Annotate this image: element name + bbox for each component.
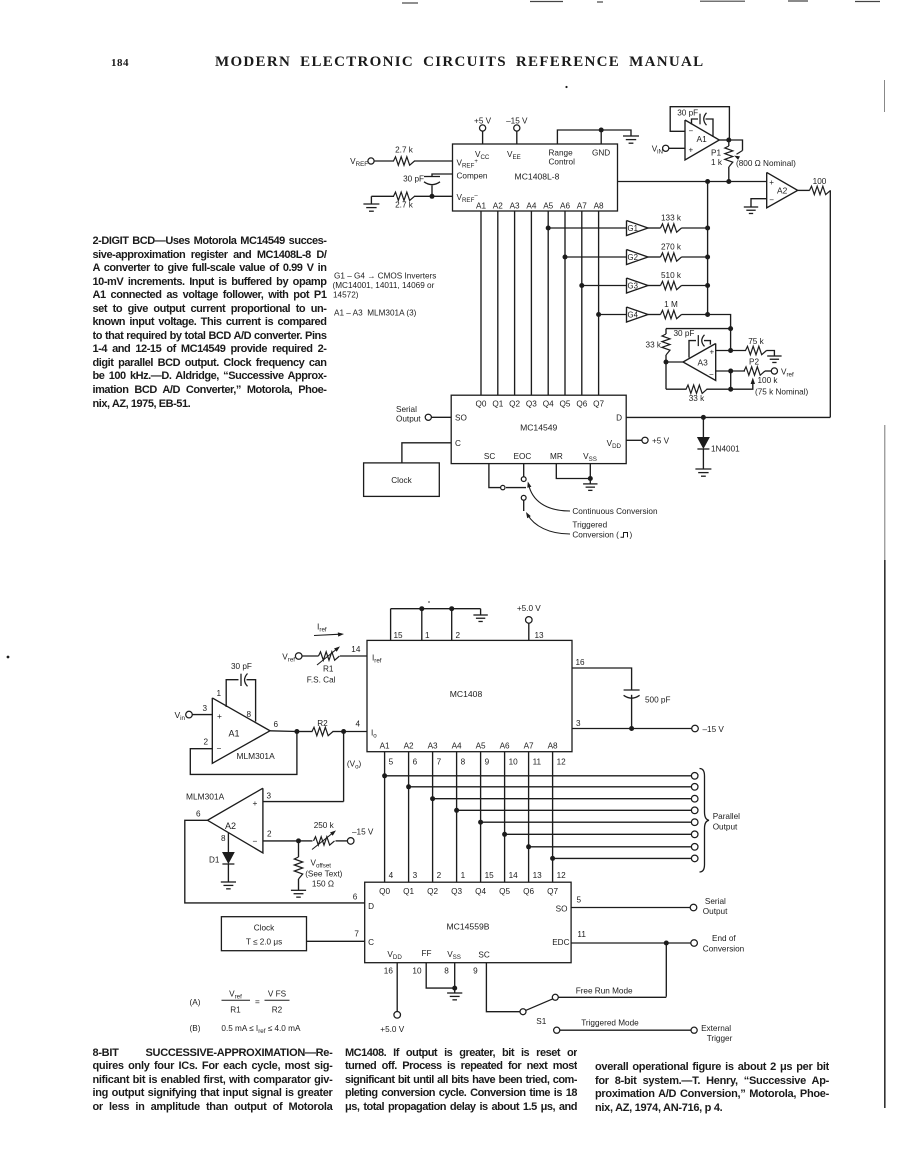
svg-text:+: + — [217, 711, 222, 721]
svg-text:4: 4 — [389, 871, 394, 880]
svg-text:8: 8 — [461, 758, 466, 767]
svg-text:GND: GND — [592, 149, 610, 158]
svg-text:3: 3 — [576, 719, 581, 728]
svg-text:30 pF: 30 pF — [403, 175, 424, 184]
svg-text:1: 1 — [461, 871, 466, 880]
svg-text:Conversion (: Conversion ( — [572, 531, 619, 540]
svg-text:Parallel: Parallel — [713, 812, 740, 821]
svg-text:A2: A2 — [777, 185, 788, 195]
svg-text:Range: Range — [549, 149, 574, 158]
svg-text:R1: R1 — [230, 1006, 241, 1015]
svg-text:1: 1 — [217, 689, 222, 698]
svg-text:5: 5 — [389, 758, 394, 767]
svg-text:−: − — [217, 744, 222, 754]
svg-text:Vin: Vin — [174, 710, 185, 722]
svg-text:Clock: Clock — [254, 924, 275, 933]
svg-text:2.7 k: 2.7 k — [395, 201, 414, 210]
svg-text:−: − — [253, 836, 258, 846]
svg-text:133 k: 133 k — [661, 214, 682, 223]
svg-text:75 k: 75 k — [748, 337, 764, 346]
svg-text:6: 6 — [274, 720, 279, 729]
svg-text:D1: D1 — [209, 856, 220, 865]
svg-text:+5.0 V: +5.0 V — [380, 1025, 404, 1034]
svg-text:G1: G1 — [628, 224, 638, 233]
svg-text:10: 10 — [509, 758, 519, 767]
svg-text:+5.0 V: +5.0 V — [517, 604, 541, 613]
svg-text:MLM301A: MLM301A — [237, 751, 276, 761]
svg-text:Q3: Q3 — [451, 887, 462, 896]
svg-text:30 pF: 30 pF — [674, 329, 695, 338]
svg-text:12: 12 — [557, 871, 567, 880]
svg-text:12: 12 — [557, 758, 567, 767]
svg-text:R2: R2 — [272, 1006, 283, 1015]
svg-text:Q3: Q3 — [526, 400, 537, 409]
svg-text:MC14559B: MC14559B — [447, 922, 490, 932]
svg-text:Q1: Q1 — [403, 887, 414, 896]
svg-text:15: 15 — [485, 871, 495, 880]
svg-text:16: 16 — [576, 658, 586, 667]
svg-text:F.S. Cal: F.S. Cal — [307, 676, 336, 685]
svg-text:Q4: Q4 — [543, 400, 554, 409]
svg-text:(See Text): (See Text) — [305, 870, 342, 879]
svg-text:G4: G4 — [628, 311, 639, 320]
svg-text:V FS: V FS — [268, 990, 287, 999]
svg-text:A4: A4 — [526, 202, 536, 211]
svg-text:Iref: Iref — [317, 622, 327, 634]
svg-text:A7: A7 — [524, 742, 534, 751]
svg-text:Trigger: Trigger — [707, 1034, 733, 1043]
svg-text:Triggered Mode: Triggered Mode — [581, 1019, 639, 1028]
svg-text:−: − — [709, 370, 714, 379]
svg-text:3: 3 — [203, 704, 208, 713]
svg-text:Q2: Q2 — [509, 400, 520, 409]
svg-text:30 pF: 30 pF — [677, 109, 698, 118]
svg-text:6: 6 — [196, 810, 201, 819]
svg-text:6: 6 — [413, 758, 418, 767]
svg-text:Continuous Conversion: Continuous Conversion — [572, 507, 658, 516]
svg-text:−: − — [769, 196, 774, 205]
svg-text:MC1408L-8: MC1408L-8 — [515, 172, 560, 182]
svg-text:External: External — [701, 1024, 731, 1033]
svg-text:A2: A2 — [225, 821, 236, 831]
svg-text:MC1408: MC1408 — [450, 689, 483, 699]
svg-text:SC: SC — [478, 951, 489, 960]
svg-text:1 k: 1 k — [711, 158, 723, 167]
svg-text:SO: SO — [455, 414, 467, 423]
svg-text:G3: G3 — [628, 282, 638, 291]
svg-text:MR: MR — [550, 452, 563, 461]
svg-text:Q5: Q5 — [560, 400, 571, 409]
svg-text:End of: End of — [712, 934, 736, 943]
svg-text:8: 8 — [247, 710, 252, 719]
svg-text:1N4001: 1N4001 — [711, 445, 740, 454]
svg-text:3: 3 — [413, 871, 418, 880]
svg-text:A7: A7 — [577, 202, 587, 211]
svg-text:Q0: Q0 — [476, 400, 487, 409]
svg-text:R2: R2 — [317, 719, 328, 728]
svg-text:0.5 mA ≤ Iref ≤ 4.0 mA: 0.5 mA ≤ Iref ≤ 4.0 mA — [221, 1024, 301, 1035]
svg-text:A3: A3 — [698, 358, 709, 368]
svg-text:+: + — [769, 178, 774, 187]
svg-text:33 k: 33 k — [689, 394, 705, 403]
svg-text:14572): 14572) — [333, 291, 359, 300]
svg-text:D: D — [368, 902, 374, 911]
svg-text:270 k: 270 k — [661, 243, 682, 252]
svg-text:A1: A1 — [380, 742, 390, 751]
svg-text:T ≤ 2.0 μs: T ≤ 2.0 μs — [246, 938, 282, 947]
svg-text:–15 V: –15 V — [703, 725, 725, 734]
svg-text:(75 k Nominal): (75 k Nominal) — [755, 388, 809, 397]
svg-text:–15 V: –15 V — [506, 117, 528, 126]
svg-text:A3: A3 — [510, 202, 520, 211]
svg-text:7: 7 — [437, 758, 442, 767]
svg-text:(MC14001, 14011, 14069 or: (MC14001, 14011, 14069 or — [333, 281, 435, 290]
svg-text:P1: P1 — [711, 149, 721, 158]
svg-text:1: 1 — [425, 631, 430, 640]
svg-text:16: 16 — [384, 967, 394, 976]
svg-text:10: 10 — [412, 967, 422, 976]
svg-text:Q5: Q5 — [499, 887, 510, 896]
svg-text:(800 Ω Nominal): (800 Ω Nominal) — [736, 159, 796, 168]
svg-text:SO: SO — [556, 905, 568, 914]
svg-text:14: 14 — [509, 871, 519, 880]
svg-text:Clock: Clock — [391, 476, 412, 485]
svg-text:(A): (A) — [190, 998, 201, 1007]
svg-text:5: 5 — [577, 896, 582, 905]
svg-text:EOC: EOC — [514, 452, 532, 461]
svg-text:9: 9 — [485, 758, 490, 767]
svg-text:(Vo): (Vo) — [347, 760, 362, 771]
svg-text:SC: SC — [484, 452, 495, 461]
svg-text:P2: P2 — [749, 358, 759, 367]
svg-text:VDD: VDD — [387, 950, 402, 961]
svg-text:−: − — [689, 127, 694, 136]
svg-text:2: 2 — [267, 830, 272, 839]
svg-text:6: 6 — [353, 893, 358, 902]
svg-text:Output: Output — [713, 823, 738, 832]
svg-text:Q1: Q1 — [492, 400, 503, 409]
svg-text:A5: A5 — [476, 742, 486, 751]
svg-text:3: 3 — [267, 792, 272, 801]
svg-text:A5: A5 — [543, 202, 553, 211]
svg-text:MLM301A: MLM301A — [186, 792, 225, 802]
svg-text:+5 V: +5 V — [474, 117, 492, 126]
svg-text:G2: G2 — [628, 253, 638, 262]
svg-text:Triggered: Triggered — [572, 521, 607, 530]
svg-text:VSS: VSS — [447, 950, 461, 961]
svg-text:100: 100 — [813, 177, 827, 186]
svg-text:A6: A6 — [500, 742, 510, 751]
svg-text:+: + — [253, 798, 258, 808]
svg-text:Q6: Q6 — [576, 400, 587, 409]
svg-text:VEE: VEE — [507, 150, 521, 161]
svg-text:Compen: Compen — [457, 172, 488, 181]
svg-text:A6: A6 — [560, 202, 570, 211]
svg-text:2.7 k: 2.7 k — [395, 146, 414, 155]
svg-text:4: 4 — [356, 720, 361, 729]
svg-text:510 k: 510 k — [661, 271, 682, 280]
svg-text:G1 – G4 → CMOS Inverters: G1 – G4 → CMOS Inverters — [334, 272, 436, 281]
svg-text:500 pF: 500 pF — [645, 696, 671, 705]
svg-text:A8: A8 — [594, 202, 604, 211]
svg-text:11: 11 — [577, 930, 586, 939]
svg-text:Vref: Vref — [229, 990, 242, 1001]
svg-text:A1 – A3 MLM301A (3): A1 – A3 MLM301A (3) — [334, 309, 417, 318]
svg-text:A1: A1 — [476, 202, 486, 211]
svg-text:VDD: VDD — [607, 439, 622, 450]
svg-text:Output: Output — [703, 907, 728, 916]
svg-text:+: + — [689, 146, 694, 155]
svg-text:A1: A1 — [697, 134, 708, 144]
svg-text:A8: A8 — [548, 742, 558, 751]
svg-text:VSS: VSS — [583, 452, 597, 463]
svg-text:250 k: 250 k — [314, 821, 335, 830]
svg-text:A3: A3 — [428, 742, 438, 751]
svg-text:8: 8 — [221, 834, 226, 843]
svg-text:Output: Output — [396, 415, 421, 424]
svg-text:Vref: Vref — [282, 653, 295, 664]
svg-text:A1: A1 — [229, 729, 240, 739]
svg-text:A4: A4 — [452, 742, 462, 751]
svg-text:VREF+: VREF+ — [457, 159, 479, 170]
svg-text:150 Ω: 150 Ω — [312, 880, 334, 889]
svg-text:2: 2 — [437, 871, 442, 880]
svg-text:1 M: 1 M — [664, 300, 678, 309]
svg-text:FF: FF — [422, 949, 432, 958]
svg-text:30 pF: 30 pF — [231, 662, 252, 671]
svg-text:+5 V: +5 V — [652, 437, 670, 446]
svg-text:Conversion: Conversion — [703, 945, 745, 954]
svg-text:13: 13 — [533, 871, 543, 880]
svg-text:14: 14 — [351, 645, 361, 654]
svg-text:S1: S1 — [536, 1017, 546, 1026]
svg-text:MC14549: MC14549 — [520, 423, 557, 433]
svg-text:Q4: Q4 — [475, 887, 486, 896]
svg-text:C: C — [368, 938, 374, 947]
svg-text:33 k: 33 k — [646, 341, 662, 350]
svg-text:Serial: Serial — [396, 405, 417, 414]
svg-text:2: 2 — [204, 738, 209, 747]
svg-text:Control: Control — [549, 158, 576, 167]
svg-text:A2: A2 — [493, 202, 503, 211]
svg-text:Voffset: Voffset — [311, 859, 332, 870]
svg-text:Q7: Q7 — [547, 887, 558, 896]
svg-text:15: 15 — [394, 631, 404, 640]
svg-text:–15 V: –15 V — [352, 828, 374, 837]
svg-text:VREF: VREF — [350, 157, 368, 168]
svg-text:=: = — [255, 998, 260, 1007]
svg-text:(B): (B) — [190, 1024, 201, 1033]
svg-text:): ) — [630, 531, 633, 540]
svg-text:R1: R1 — [323, 665, 334, 674]
svg-text:Free Run Mode: Free Run Mode — [576, 987, 633, 996]
svg-text:100 k: 100 k — [758, 376, 779, 385]
svg-text:13: 13 — [535, 631, 545, 640]
svg-text:Io: Io — [371, 729, 377, 740]
svg-text:C: C — [455, 439, 461, 448]
svg-text:Iref: Iref — [372, 654, 382, 665]
svg-text:Q0: Q0 — [379, 887, 390, 896]
svg-text:2: 2 — [456, 631, 461, 640]
svg-text:11: 11 — [533, 758, 542, 767]
svg-text:Q6: Q6 — [523, 887, 534, 896]
svg-text:9: 9 — [473, 967, 478, 976]
svg-text:Serial: Serial — [705, 897, 726, 906]
svg-text:Vref: Vref — [781, 368, 794, 379]
svg-text:EDC: EDC — [552, 938, 569, 947]
svg-text:A2: A2 — [404, 742, 414, 751]
svg-text:8: 8 — [444, 967, 449, 976]
svg-text:D: D — [616, 414, 622, 423]
svg-text:Q7: Q7 — [593, 400, 604, 409]
svg-text:+: + — [710, 348, 715, 357]
svg-text:7: 7 — [354, 930, 359, 939]
svg-text:Q2: Q2 — [427, 887, 438, 896]
svg-text:ViN: ViN — [652, 145, 663, 156]
